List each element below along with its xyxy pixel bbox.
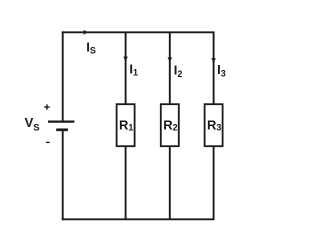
wire bottom horizontal (62, 218, 215, 220)
svg-text:I2: I2 (174, 62, 183, 79)
battery VS negative plate (56, 128, 68, 131)
svg-text:VS: VS (25, 115, 40, 133)
current arrow IS (84, 30, 88, 35)
wire left lower (62, 130, 64, 220)
wire top horizontal (62, 31, 215, 33)
wire branch 3 lower (213, 146, 215, 219)
wire branch 1 upper (125, 32, 127, 104)
minus polarity mark (46, 141, 50, 143)
resistor R3 (205, 104, 223, 146)
svg-text:IS: IS (86, 39, 96, 55)
wire branch 3 upper (213, 32, 215, 104)
current arrow I2 (168, 57, 173, 62)
battery VS positive plate (48, 120, 74, 122)
svg-text:I3: I3 (217, 62, 226, 79)
wire left upper (62, 31, 64, 121)
wire branch 2 lower (169, 146, 171, 219)
wire branch 2 upper (169, 32, 171, 104)
current arrow I3 (211, 58, 216, 63)
plus polarity mark (44, 104, 50, 109)
resistor R2 (161, 104, 179, 146)
resistor R1 (117, 104, 135, 146)
current arrow I1 (123, 57, 128, 62)
svg-text:I1: I1 (129, 62, 138, 78)
wire branch 1 lower (125, 146, 127, 219)
